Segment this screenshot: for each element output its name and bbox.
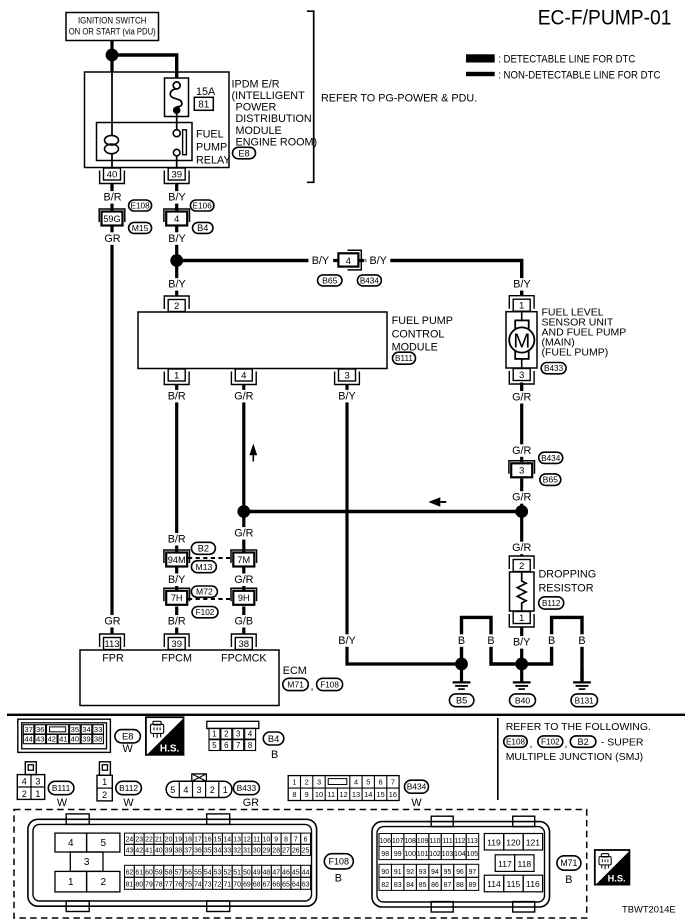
svg-text:32: 32 <box>233 848 241 855</box>
svg-text:POWER: POWER <box>236 102 277 114</box>
connector view B433 <box>166 774 232 798</box>
FPCM pin 2 <box>164 296 189 312</box>
ignition switch box <box>66 13 159 41</box>
svg-text:50: 50 <box>243 870 251 877</box>
wire node C to 7M <box>242 512 245 553</box>
svg-text:113: 113 <box>467 838 478 845</box>
svg-text:9: 9 <box>274 837 278 844</box>
svg-text:121: 121 <box>526 837 541 847</box>
connector view E8 oval <box>115 730 140 743</box>
svg-text:88: 88 <box>456 882 464 889</box>
H.S. logo bottom <box>595 850 630 885</box>
label B/Y left of inline connector <box>308 255 332 268</box>
svg-text:3: 3 <box>519 370 524 381</box>
wire ignition switch to node A <box>110 41 113 73</box>
svg-text:81: 81 <box>198 99 210 110</box>
refer panel divider <box>497 718 499 800</box>
svg-text:3: 3 <box>236 730 240 739</box>
svg-text:ECM: ECM <box>283 665 307 677</box>
label B/R under pin 1 <box>165 390 189 403</box>
fuse label 15A <box>196 86 216 98</box>
svg-text:102: 102 <box>429 851 441 858</box>
svg-text:2: 2 <box>519 561 524 572</box>
svg-text:16: 16 <box>389 790 397 799</box>
connector F102 oval <box>192 607 218 618</box>
svg-text:B112: B112 <box>542 599 561 608</box>
label GR upper <box>104 232 121 245</box>
svg-text:2: 2 <box>102 790 107 800</box>
svg-text:86: 86 <box>431 882 439 889</box>
svg-text:43: 43 <box>126 848 134 855</box>
connector view B433 color GR <box>243 797 259 809</box>
svg-text:25: 25 <box>302 848 310 855</box>
svg-text:B65: B65 <box>322 276 338 286</box>
svg-text:76: 76 <box>174 882 182 889</box>
svg-text:99: 99 <box>394 851 402 858</box>
svg-text:42: 42 <box>48 735 56 744</box>
svg-text:35: 35 <box>204 848 212 855</box>
label G/R above 9H <box>232 574 256 587</box>
connector view B111 oval <box>48 781 74 794</box>
legend non-detectable line for DTC <box>466 69 661 81</box>
wire relay contact to pin 39 <box>176 156 178 168</box>
svg-text:3: 3 <box>35 777 40 787</box>
label B/R above 94M <box>165 533 189 546</box>
svg-text:118: 118 <box>517 859 531 869</box>
svg-text:10: 10 <box>315 790 323 799</box>
svg-text:43: 43 <box>36 735 44 744</box>
svg-text:B/Y: B/Y <box>168 233 185 245</box>
svg-text:3: 3 <box>519 466 524 477</box>
connector view F108 ECM <box>28 814 317 912</box>
svg-text:E106: E106 <box>193 202 213 211</box>
label B/Y right of inline connector <box>366 255 390 268</box>
fuel pump motor M <box>509 312 534 368</box>
svg-text:69: 69 <box>243 882 251 889</box>
svg-text:GR: GR <box>104 233 120 245</box>
connector E106 oval <box>190 200 214 211</box>
svg-text:112: 112 <box>454 838 465 845</box>
svg-text:15: 15 <box>376 790 384 799</box>
svg-text:B/Y: B/Y <box>168 192 185 204</box>
svg-text:9H: 9H <box>238 593 250 603</box>
IPDM E/R label <box>232 78 318 148</box>
svg-text:B5: B5 <box>456 696 467 706</box>
svg-text:59G: 59G <box>103 214 120 224</box>
direction arrow up <box>249 444 257 462</box>
connector view B112 oval <box>116 781 142 794</box>
connector view B112 color W <box>123 797 134 809</box>
svg-text:82: 82 <box>381 882 389 889</box>
wire 7H to ECM pin 39 <box>175 607 178 635</box>
connector view B434 <box>288 776 399 801</box>
connector M72 oval <box>191 586 217 597</box>
svg-text:103: 103 <box>442 851 454 858</box>
svg-text:106: 106 <box>379 838 391 845</box>
svg-text:15A: 15A <box>196 86 216 98</box>
svg-text:(INTELLIGENT: (INTELLIGENT <box>232 90 306 102</box>
svg-text:B434: B434 <box>407 782 427 792</box>
svg-text:49: 49 <box>253 870 261 877</box>
svg-text:36: 36 <box>36 725 44 734</box>
svg-text:DROPPING: DROPPING <box>539 569 597 581</box>
ground B131 oval <box>571 694 598 707</box>
label B/Y below node B <box>165 278 189 291</box>
wire right loop <box>528 617 582 680</box>
ECM pin 38 <box>231 634 256 650</box>
svg-text:108: 108 <box>404 838 416 845</box>
svg-text:11: 11 <box>253 837 260 844</box>
svg-text:1: 1 <box>174 371 179 382</box>
svg-text:7H: 7H <box>171 593 183 603</box>
svg-text:38: 38 <box>94 735 102 744</box>
svg-text:40: 40 <box>155 848 163 855</box>
svg-text:9: 9 <box>305 790 309 799</box>
svg-text:117: 117 <box>498 859 512 869</box>
svg-text:B/R: B/R <box>168 616 186 628</box>
svg-text:81: 81 <box>126 882 134 889</box>
node E junction dot <box>455 658 468 671</box>
fuel pump unit box <box>506 312 537 368</box>
label G/B above ECM pin 38 <box>232 615 256 628</box>
label B on wire 1 <box>456 634 467 647</box>
svg-text:B: B <box>578 635 585 647</box>
svg-text:12: 12 <box>339 790 347 799</box>
wire node A to fuse <box>112 55 177 79</box>
svg-text:51: 51 <box>233 870 241 877</box>
svg-text:55: 55 <box>194 870 202 877</box>
svg-text:62: 62 <box>126 870 134 877</box>
svg-text:91: 91 <box>394 869 402 876</box>
fuel pump relay box <box>97 123 193 161</box>
svg-text:H.S.: H.S. <box>160 744 180 755</box>
svg-text:115: 115 <box>507 879 521 889</box>
relay contact bottom <box>173 149 180 156</box>
svg-text:93: 93 <box>419 869 427 876</box>
svg-text:30: 30 <box>253 848 261 855</box>
svg-text:94: 94 <box>431 869 439 876</box>
svg-text:39: 39 <box>165 848 173 855</box>
svg-text:2: 2 <box>22 789 27 799</box>
node B junction dot <box>170 254 183 267</box>
svg-text:52: 52 <box>223 870 231 877</box>
fuel pump pin 1 <box>509 296 534 312</box>
svg-text:8: 8 <box>292 790 296 799</box>
svg-text:CONTROL: CONTROL <box>392 328 445 340</box>
svg-text:85: 85 <box>419 882 427 889</box>
refer oval B2 <box>570 736 596 747</box>
svg-text:IPDM E/R: IPDM E/R <box>232 78 280 90</box>
svg-text:109: 109 <box>417 838 429 845</box>
title EC-F/PUMP-01 <box>538 6 672 30</box>
svg-text:RESISTOR: RESISTOR <box>539 583 594 595</box>
svg-text:G/R: G/R <box>234 390 253 402</box>
svg-text:36: 36 <box>194 848 202 855</box>
label B/Y above fuel pump pin 1 <box>510 278 534 291</box>
svg-text:57: 57 <box>174 870 182 877</box>
svg-text:38: 38 <box>238 639 249 650</box>
svg-text:18: 18 <box>184 837 192 844</box>
relay contact bar <box>183 130 187 155</box>
svg-text:94M: 94M <box>168 555 186 565</box>
label B/Y below pin 39 <box>165 191 189 204</box>
svg-text:G/R: G/R <box>512 392 531 404</box>
svg-text:15: 15 <box>214 837 222 844</box>
refer comma 2 <box>565 738 568 750</box>
drawing number <box>622 903 676 914</box>
svg-text:97: 97 <box>469 869 477 876</box>
connector B434 oval <box>357 275 381 286</box>
svg-text:G/R: G/R <box>234 574 253 586</box>
svg-text:10: 10 <box>263 837 271 844</box>
svg-text:48: 48 <box>263 870 271 877</box>
connector B111 oval <box>393 352 416 364</box>
svg-text:4: 4 <box>183 785 188 795</box>
svg-text:74: 74 <box>194 882 202 889</box>
svg-text:56: 56 <box>184 870 192 877</box>
svg-text:(FUEL PUMP): (FUEL PUMP) <box>542 347 609 359</box>
wire node B to fuel pump <box>177 261 522 297</box>
connector B4 oval <box>193 222 214 233</box>
inline connector 4 B65-B434 <box>331 250 366 270</box>
resistor pin 2 <box>509 556 534 572</box>
SMJ connector 59G <box>99 209 125 226</box>
ECM pin 113 <box>100 634 125 650</box>
refer super text <box>601 736 644 748</box>
svg-text:58: 58 <box>165 870 173 877</box>
svg-text:E8: E8 <box>238 148 249 158</box>
resistor pin 1 <box>509 612 534 628</box>
svg-text:6: 6 <box>224 741 228 750</box>
wire FPCM pin 1 to 94M <box>175 385 178 553</box>
node F junction dot <box>515 658 528 671</box>
connector view B434 color W <box>411 797 422 809</box>
svg-text:5: 5 <box>366 778 370 787</box>
svg-text:GR: GR <box>243 797 259 809</box>
svg-text:B/Y: B/Y <box>338 635 355 647</box>
relay coil <box>105 72 119 168</box>
wire FPCM pin 4 to node C <box>242 385 245 506</box>
SMJ connector 9H <box>231 588 257 605</box>
connector B65 oval lower <box>540 474 561 486</box>
svg-text:53: 53 <box>214 870 222 877</box>
svg-text:120: 120 <box>506 837 521 847</box>
FPCM pin 1 <box>164 369 189 385</box>
svg-text:2: 2 <box>305 778 309 787</box>
connector view B4 color B <box>271 749 278 761</box>
svg-text:66: 66 <box>272 882 280 889</box>
svg-text:FPCM: FPCM <box>161 652 192 664</box>
svg-text:,: , <box>565 738 568 750</box>
svg-text:46: 46 <box>282 870 290 877</box>
svg-text:F108: F108 <box>320 680 339 689</box>
connector view E8 color W <box>122 743 133 755</box>
connector view B434 oval <box>405 780 429 793</box>
svg-text:92: 92 <box>406 869 414 876</box>
label B/Y lower <box>335 634 359 647</box>
svg-text:33: 33 <box>223 848 231 855</box>
svg-text:4: 4 <box>22 777 27 787</box>
label B/Y above node B <box>165 232 189 245</box>
label G/R above node D <box>510 491 534 504</box>
label G/R below node C <box>232 527 256 540</box>
connector view B4 <box>207 721 259 750</box>
svg-text:B/Y: B/Y <box>168 574 185 586</box>
svg-text:G/R: G/R <box>512 542 531 554</box>
svg-text:100: 100 <box>404 851 416 858</box>
svg-text:28: 28 <box>272 848 280 855</box>
svg-text:H.S.: H.S. <box>608 874 626 884</box>
svg-text:4: 4 <box>346 256 352 267</box>
svg-text:107: 107 <box>392 838 404 845</box>
svg-text:72: 72 <box>214 882 222 889</box>
svg-text:B434: B434 <box>541 454 561 463</box>
svg-text:40: 40 <box>107 170 118 181</box>
svg-text:B: B <box>548 635 555 647</box>
svg-text:37: 37 <box>24 725 32 734</box>
svg-text:FPR: FPR <box>102 652 124 664</box>
svg-text:73: 73 <box>204 882 212 889</box>
svg-text:98: 98 <box>381 851 389 858</box>
node D junction dot <box>515 505 528 518</box>
SMJ link 94M-7M <box>188 557 232 559</box>
svg-text:G/R: G/R <box>512 445 531 457</box>
fuel pump pin 3 <box>509 369 534 385</box>
svg-text:7: 7 <box>294 837 298 844</box>
svg-text:39: 39 <box>171 170 182 181</box>
svg-text:F102: F102 <box>541 738 560 747</box>
svg-text:119: 119 <box>487 837 501 847</box>
svg-text:1: 1 <box>519 301 524 312</box>
wire node C to node D <box>244 510 522 513</box>
connector M71 oval <box>283 678 309 690</box>
refer oval F102 <box>538 736 563 747</box>
fuel pump control module box <box>138 312 387 369</box>
relay label <box>196 129 231 167</box>
svg-text:111: 111 <box>442 838 453 845</box>
svg-text:38: 38 <box>174 848 182 855</box>
svg-text:W: W <box>57 797 68 809</box>
svg-text:26: 26 <box>292 848 300 855</box>
label G/R under fuel pump <box>510 391 534 404</box>
svg-text:27: 27 <box>282 848 290 855</box>
wire pin 40 to 59G <box>110 184 113 212</box>
svg-text:B/Y: B/Y <box>338 390 355 402</box>
label B/Y under pin 3 <box>335 390 359 403</box>
svg-text:B/Y: B/Y <box>513 279 530 291</box>
svg-text:89: 89 <box>469 882 477 889</box>
svg-text:3: 3 <box>196 785 201 795</box>
svg-text:4: 4 <box>248 730 253 739</box>
svg-text:GR: GR <box>104 616 120 628</box>
svg-text:64: 64 <box>292 882 300 889</box>
svg-text:B: B <box>487 635 494 647</box>
svg-text:FUEL: FUEL <box>196 129 224 141</box>
svg-text:19: 19 <box>174 837 182 844</box>
FPCM pin 4 <box>231 369 256 385</box>
connector view B111 color W <box>57 797 68 809</box>
svg-text:W: W <box>411 797 422 809</box>
svg-text:B/R: B/R <box>168 390 186 402</box>
svg-text:6: 6 <box>304 837 308 844</box>
connector M13 oval <box>191 561 216 573</box>
svg-text:MULTIPLE JUNCTION (SMJ): MULTIPLE JUNCTION (SMJ) <box>506 751 643 763</box>
svg-text:44: 44 <box>302 870 310 877</box>
svg-text:TBWT2014E: TBWT2014E <box>622 903 676 914</box>
svg-text:23: 23 <box>135 837 143 844</box>
svg-text:87: 87 <box>444 882 452 889</box>
svg-text:B: B <box>335 873 342 885</box>
SMJ connector 7H <box>164 588 190 605</box>
svg-text:17: 17 <box>194 837 202 844</box>
svg-text:2: 2 <box>174 301 179 312</box>
connector B434 oval upper <box>539 452 563 463</box>
label GR lower <box>104 615 121 628</box>
svg-text:90: 90 <box>381 869 389 876</box>
label B/R above ECM pin 39 <box>165 615 189 628</box>
connector M15 oval <box>129 222 152 233</box>
svg-text:1: 1 <box>35 789 40 799</box>
svg-text:3: 3 <box>344 371 349 382</box>
wire fuse to relay contact <box>176 114 178 130</box>
svg-text:3: 3 <box>84 857 90 868</box>
connector view M71 ECM <box>372 816 550 912</box>
svg-text:12: 12 <box>243 837 251 844</box>
svg-text:41: 41 <box>59 735 67 744</box>
svg-text:22: 22 <box>145 837 153 844</box>
label B on wire 3 <box>546 634 557 647</box>
svg-text:EC-F/PUMP-01: EC-F/PUMP-01 <box>538 6 672 30</box>
svg-text:F108: F108 <box>329 857 350 867</box>
ECM box <box>80 650 279 706</box>
svg-text:B433: B433 <box>544 364 564 373</box>
svg-text:5: 5 <box>212 741 217 750</box>
connector view F108 color B <box>335 873 342 885</box>
dashed box <box>14 810 587 919</box>
svg-text:E108: E108 <box>506 738 526 747</box>
svg-text:E8: E8 <box>122 731 133 742</box>
svg-text:1: 1 <box>519 613 524 624</box>
svg-text:77: 77 <box>165 882 173 889</box>
wire 7M to 9H <box>242 567 245 591</box>
relay contact top <box>173 130 180 137</box>
svg-text:W: W <box>122 743 133 755</box>
wire resistor pin 1 to node F <box>520 627 523 664</box>
svg-text:34: 34 <box>82 725 90 734</box>
connector view B111 <box>17 762 44 800</box>
svg-text:1: 1 <box>212 730 216 739</box>
svg-text:4: 4 <box>241 371 247 382</box>
svg-text:M: M <box>513 329 530 352</box>
svg-text:113: 113 <box>104 639 119 650</box>
svg-text:2: 2 <box>224 730 228 739</box>
label B/Y under resistor <box>510 636 534 649</box>
pin 39 <box>164 168 189 184</box>
svg-text:16: 16 <box>204 837 212 844</box>
ground B40 oval <box>510 694 536 707</box>
svg-text:4: 4 <box>174 214 180 225</box>
svg-text:11: 11 <box>327 790 335 799</box>
svg-text:B/Y: B/Y <box>369 255 386 267</box>
svg-text:39: 39 <box>171 639 182 650</box>
wire left loop <box>462 617 516 664</box>
connector view E8 <box>18 719 111 752</box>
svg-text:PUMP: PUMP <box>196 142 227 154</box>
svg-text:FPCMCK: FPCMCK <box>221 652 267 664</box>
svg-text:E108: E108 <box>131 202 151 211</box>
node C junction dot <box>237 505 250 518</box>
svg-text:,: , <box>311 681 314 693</box>
